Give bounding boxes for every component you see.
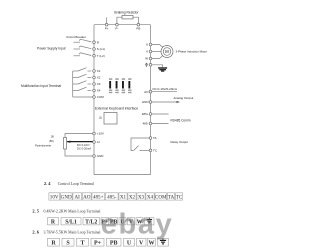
inverter box top edge (94, 24, 151, 26)
svg-text:TA: TA (168, 195, 175, 201)
terminal X3 (93, 82, 101, 86)
svg-text:DC 0-20mA: DC 0-20mA (77, 147, 91, 151)
terminal COM (93, 95, 105, 99)
inverter box right edge (150, 25, 152, 175)
svg-text:GND: GND (97, 154, 105, 158)
svg-text:T: T (80, 241, 84, 247)
multifunction common bus (72, 71, 74, 97)
wire W to motor (152, 56, 163, 59)
svg-text:(5K): (5K) (49, 139, 54, 143)
svg-text:X3: X3 (138, 195, 145, 201)
wire 485+ (152, 113, 169, 115)
terminal earth (145, 63, 152, 66)
svg-text:3.7KW-5.5KW Main Loop Terminal: 3.7KW-5.5KW Main Loop Terminal (44, 231, 101, 235)
svg-text:485-: 485- (107, 195, 117, 201)
wire U to motor (152, 45, 163, 48)
relay contact (131, 138, 149, 150)
motor M (161, 46, 173, 58)
svg-text:PB: PB (110, 241, 118, 247)
svg-text:Analog Output: Analog Output (174, 96, 194, 100)
heading 2.5 main loop terminal (32, 209, 100, 214)
svg-text:X1: X1 (120, 195, 127, 201)
terminal W (145, 57, 152, 61)
main loop strip 3.7-5.5kw (48, 238, 169, 246)
svg-text:2. 4: 2. 4 (44, 181, 51, 186)
svg-text:V: V (139, 241, 144, 247)
svg-text:Control Loop Terminal: Control Loop Terminal (58, 182, 94, 186)
svg-text:TA: TA (153, 136, 157, 140)
terminal X4 (93, 89, 101, 93)
terminal V (146, 50, 152, 54)
inverter box left edge (93, 25, 95, 175)
terminal T (L2) (93, 54, 105, 58)
terminal P- (115, 23, 118, 30)
switch X2 (73, 74, 92, 77)
terminal R (93, 40, 100, 44)
terminal S (L1) (93, 47, 105, 51)
svg-text:P-: P- (115, 26, 118, 30)
svg-text:5K: 5K (51, 134, 54, 138)
svg-text:ebay: ebay (101, 209, 174, 241)
svg-text:AI: AI (75, 195, 81, 201)
switch X4 (73, 87, 92, 90)
svg-text:485+: 485+ (142, 112, 149, 116)
svg-text:X4: X4 (97, 89, 101, 93)
svg-text:External Keyboard interface: External Keyboard interface (95, 106, 138, 110)
svg-text:+10V: +10V (97, 132, 104, 136)
svg-text:X2: X2 (129, 195, 136, 201)
wire GND analog output (152, 101, 180, 103)
svg-text:X1: X1 (97, 69, 101, 73)
svg-text:COM: COM (97, 95, 105, 99)
svg-text:Potentiometer: Potentiometer (35, 144, 51, 148)
svg-text:P+: P+ (105, 26, 109, 30)
wire COM (73, 96, 94, 98)
terminal 485- (142, 122, 151, 126)
wire resistor right to PB (133, 17, 138, 25)
earth glyph cell 2.5 (147, 218, 153, 223)
svg-text:Multifunction Input Terminal: Multifunction Input Terminal (21, 84, 61, 88)
svg-text:M: M (165, 49, 169, 54)
svg-text:Braking Resistor: Braking Resistor (114, 11, 139, 15)
svg-text:W: W (145, 57, 148, 61)
wire pot wiper to AI (67, 141, 94, 143)
svg-text:U: U (146, 43, 148, 47)
svg-text:X4: X4 (147, 195, 154, 201)
svg-text:V: V (146, 50, 148, 54)
svg-text:X2: X2 (97, 76, 101, 80)
svg-text:(1): (1) (99, 116, 102, 120)
svg-text:10V: 10V (50, 195, 59, 201)
svg-text:P+: P+ (94, 241, 102, 247)
breaker pole T (74, 53, 92, 56)
svg-text:485-: 485- (142, 122, 148, 126)
svg-text:DC 0-10V /: DC 0-10V / (77, 143, 91, 147)
wire V to motor (152, 51, 162, 53)
terminal +10V (93, 132, 104, 136)
svg-text:R: R (51, 241, 56, 247)
inverter box bottom edge (94, 174, 151, 176)
terminal GND right (142, 100, 152, 104)
svg-text:W: W (149, 241, 155, 247)
svg-text:T (L2): T (L2) (97, 54, 105, 58)
terminal X1 (93, 69, 101, 73)
potentiometer 5K (35, 134, 67, 149)
switch X3 (73, 81, 92, 84)
terminal TC (149, 149, 158, 153)
svg-text:Circuit Breaker: Circuit Breaker (66, 35, 86, 39)
svg-text:0.4KW-2.2KW Main Loop Terminal: 0.4KW-2.2KW Main Loop Terminal (44, 210, 101, 214)
svg-text:DC:0-10V/0-20mA: DC:0-10V/0-20mA (153, 87, 178, 91)
breaker pole R (74, 39, 92, 42)
braking resistor R (114, 11, 139, 19)
svg-text:AI: AI (97, 140, 100, 144)
heading 2.4 control loop terminal (44, 181, 94, 186)
svg-text:TC: TC (176, 195, 183, 201)
wire AO (152, 91, 177, 93)
control terminal strip (49, 193, 183, 201)
earth glyph cell 2.6 (160, 239, 166, 244)
wire pot top to +10V (65, 134, 94, 138)
svg-text:485+: 485+ (93, 195, 104, 201)
terminal AI (93, 140, 100, 144)
heading 2.6 main loop terminal (32, 230, 100, 235)
breaker pole S (74, 46, 92, 49)
terminal GND left (93, 154, 105, 158)
svg-text:X3: X3 (97, 82, 101, 86)
keyboard connector box (104, 113, 117, 125)
jumper J4 (128, 78, 131, 93)
terminal PB (136, 23, 140, 30)
svg-text:GND: GND (142, 100, 150, 104)
terminal X2 (93, 76, 101, 80)
wire to earth ground (152, 65, 163, 68)
svg-text:U: U (127, 241, 132, 247)
label DC 0-10V / DC 0-20mA (77, 143, 91, 151)
switch X1 (73, 68, 92, 71)
terminal U (146, 43, 152, 47)
svg-text:S/L1: S/L1 (65, 220, 77, 226)
jumper J1 (109, 78, 112, 93)
wire resistor left to P- (117, 17, 122, 25)
earth ground symbol (158, 68, 167, 71)
wire pot bottom to GND (65, 149, 94, 156)
svg-text:AO: AO (83, 195, 91, 201)
svg-text:AO: AO (144, 90, 149, 94)
svg-text:3-Phase Induction Motor: 3-Phase Induction Motor (176, 50, 208, 54)
svg-text:RS485 Comm: RS485 Comm (171, 118, 191, 122)
svg-text:2. 5: 2. 5 (32, 209, 39, 214)
jumper J2 (115, 78, 118, 93)
stub above P+ (106, 18, 108, 25)
terminal TA (149, 136, 156, 140)
svg-text:Relay Output: Relay Output (171, 140, 189, 144)
svg-text:T/L2: T/L2 (85, 220, 97, 226)
terminal AO (144, 90, 152, 94)
svg-text:2. 6: 2. 6 (32, 230, 39, 235)
svg-text:GND: GND (61, 195, 72, 201)
svg-text:PB: PB (136, 26, 140, 30)
svg-text:COM: COM (155, 195, 167, 201)
jumper J3 (122, 78, 125, 93)
main loop strip 0.4-2.2kw (48, 218, 155, 226)
wire 485- (152, 123, 169, 125)
svg-text:Power Supply Input: Power Supply Input (37, 46, 66, 50)
svg-text:S (L1): S (L1) (97, 47, 105, 51)
terminal P+ (105, 23, 109, 30)
terminal 485+ (142, 112, 152, 116)
